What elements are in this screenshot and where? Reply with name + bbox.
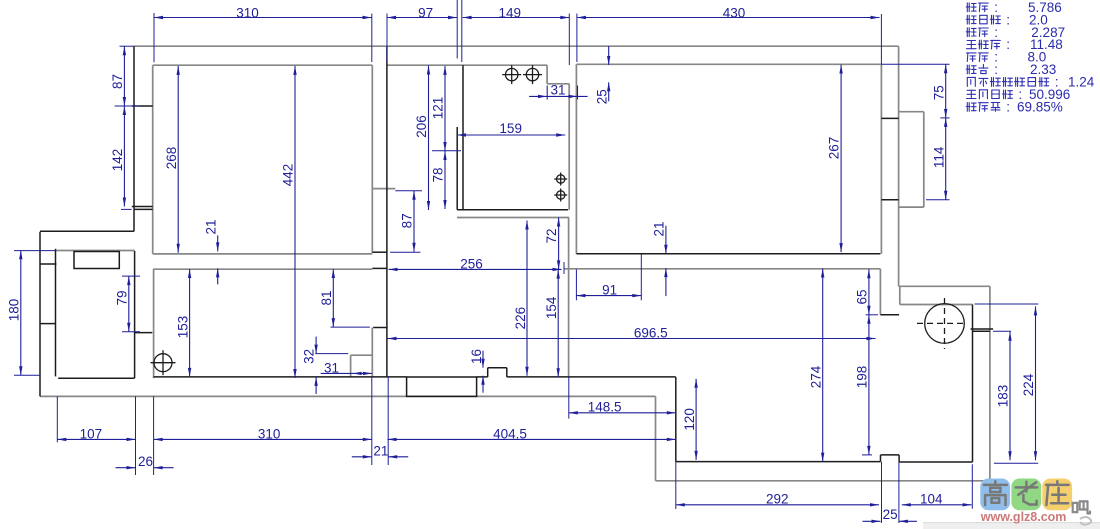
svg-text:65: 65 (855, 289, 870, 304)
svg-text:292: 292 (766, 492, 789, 507)
svg-text:149: 149 (499, 5, 522, 20)
svg-text:148.5: 148.5 (588, 400, 622, 415)
svg-text:268: 268 (164, 147, 179, 170)
svg-text:153: 153 (176, 316, 191, 339)
svg-text:107: 107 (80, 426, 103, 441)
svg-text:87: 87 (400, 213, 415, 228)
svg-text:97: 97 (418, 5, 433, 20)
svg-text:256: 256 (460, 257, 483, 272)
svg-text:198: 198 (855, 366, 870, 389)
svg-text:21: 21 (373, 443, 388, 458)
svg-text:www.glz8.com: www.glz8.com (980, 510, 1067, 524)
svg-text::: : (1006, 100, 1010, 115)
svg-text:81: 81 (319, 290, 334, 305)
svg-text:180: 180 (7, 299, 22, 322)
svg-text:104: 104 (920, 492, 943, 507)
svg-text:91: 91 (602, 283, 617, 298)
svg-text:114: 114 (932, 146, 947, 168)
svg-text:142: 142 (110, 149, 125, 172)
svg-text:226: 226 (513, 307, 528, 330)
svg-text:154: 154 (544, 296, 559, 319)
svg-text:274: 274 (808, 365, 823, 388)
svg-text:16: 16 (469, 349, 484, 364)
svg-text:21: 21 (204, 219, 219, 234)
svg-text:224: 224 (1021, 373, 1036, 396)
svg-text:31: 31 (550, 83, 565, 98)
svg-text:87: 87 (110, 74, 125, 89)
svg-text:310: 310 (258, 426, 281, 441)
svg-text:120: 120 (682, 408, 697, 431)
svg-text:206: 206 (414, 115, 429, 138)
svg-text:31: 31 (324, 361, 339, 376)
svg-text:159: 159 (499, 121, 522, 136)
svg-text:183: 183 (996, 385, 1011, 408)
svg-text:310: 310 (236, 5, 259, 20)
svg-text::: : (994, 25, 998, 40)
svg-text:25: 25 (594, 89, 609, 104)
svg-text:121: 121 (431, 97, 446, 120)
svg-text:21: 21 (652, 221, 667, 236)
svg-text:696.5: 696.5 (634, 326, 668, 341)
svg-text:442: 442 (281, 164, 296, 187)
svg-text:75: 75 (932, 85, 947, 100)
svg-text:267: 267 (827, 137, 842, 160)
svg-text:78: 78 (431, 167, 446, 182)
svg-text::: : (1006, 12, 1010, 27)
svg-text:32: 32 (302, 349, 317, 364)
svg-text::: : (994, 62, 998, 77)
svg-text::: : (994, 0, 998, 15)
svg-text:72: 72 (544, 228, 559, 243)
svg-text:1.24: 1.24 (1068, 75, 1095, 90)
svg-text:69.85%: 69.85% (1017, 100, 1063, 115)
svg-text:2.33: 2.33 (1030, 62, 1056, 77)
svg-text::: : (1006, 37, 1010, 52)
svg-text:430: 430 (723, 5, 746, 20)
svg-text:25: 25 (883, 507, 898, 522)
svg-text:404.5: 404.5 (493, 426, 527, 441)
svg-text:26: 26 (138, 454, 153, 469)
svg-text:79: 79 (115, 290, 130, 305)
